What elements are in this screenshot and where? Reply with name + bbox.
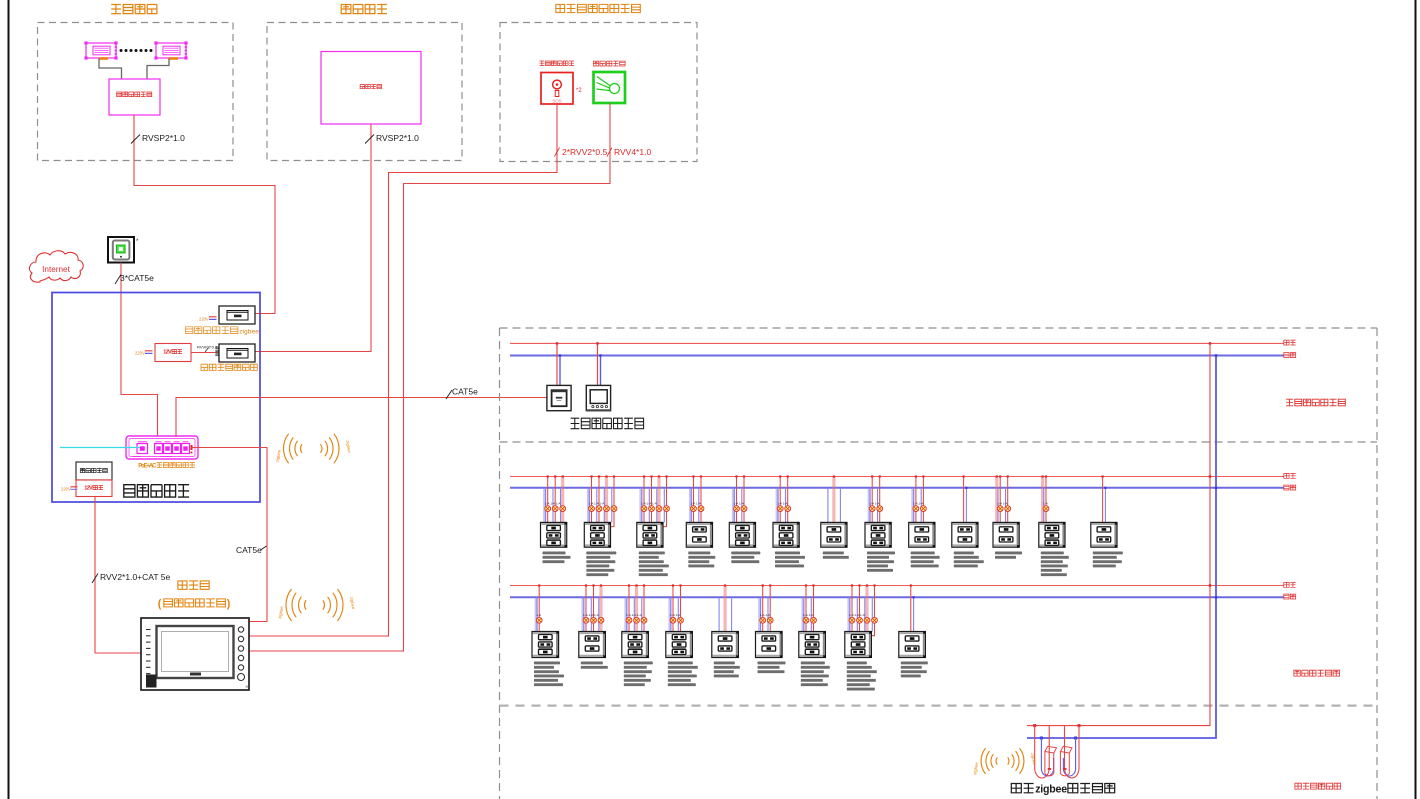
wire: curtain live feeder xyxy=(0,0,1,1)
section label: 窗帘控制系统 (red) xyxy=(1295,783,1341,789)
lighting switch panel row1 #3 with drops and connectors xyxy=(637,475,670,576)
border frame left line xyxy=(8,0,10,799)
svg-text:CAT5e: CAT5e xyxy=(236,545,262,555)
wire: uplink cyan into router port1 xyxy=(60,447,140,449)
curtain motor hook U1 (red) xyxy=(1035,726,1050,778)
power tap 220V for AC gateway xyxy=(199,317,217,322)
leader slash (monitor power) xyxy=(92,574,98,584)
svg-text:1-A 1-A: 1-A 1-A xyxy=(691,501,702,505)
label: 新风协议转发器 xyxy=(201,364,257,370)
lighting switch panel row2 #2 with drops and connectors xyxy=(579,584,608,668)
wire: AC unit2 to outdoor-unit box (grey) xyxy=(147,59,169,80)
label: 户内弱电箱 xyxy=(124,485,189,497)
device: video intercom switch 视频交换机 xyxy=(76,462,112,480)
device: thermostat panel 2 (screen type) xyxy=(586,385,610,410)
ellipsis dots between AC units xyxy=(120,49,153,52)
wire: SOS button to indoor monitor (red) xyxy=(250,104,558,636)
svg-text:(: ( xyxy=(158,598,162,610)
svg-text:1-A 1-A: 1-A 1-A xyxy=(734,501,745,505)
title: fresh-air system 新风系统 xyxy=(341,5,387,14)
leader slash tiny xyxy=(205,348,209,353)
curtain motor cylinder 2 xyxy=(1060,746,1072,776)
wire: AC unit1 to outdoor-unit box (grey) xyxy=(99,59,122,80)
svg-text:1-A 1-A: 1-A 1-A xyxy=(869,501,880,505)
lighting switch panel row1 #1 with drops and connectors xyxy=(541,475,571,563)
svg-text:RVV4*1.0: RVV4*1.0 xyxy=(614,147,651,157)
dashed separator: lighting / curtain sections xyxy=(500,704,1378,706)
panic button box (SOS) xyxy=(541,73,573,105)
device: indoor monitor 室内机 (dual LAN gateway) xyxy=(141,618,249,690)
dashed box: wired security alarm system 有线安防报警系统 xyxy=(500,23,697,162)
wire: live trunk riser to curtain section xyxy=(1027,343,1210,725)
wire: live bus L (lighting row 1) xyxy=(510,476,1284,478)
svg-text:3*CAT5e: 3*CAT5e xyxy=(120,273,154,283)
svg-text:1-A 1-A 1-A: 1-A 1-A 1-A xyxy=(545,501,562,505)
svg-text:1-A 1-A: 1-A 1-A xyxy=(913,501,924,505)
lighting switch panel row2 #9 with drops and connectors xyxy=(899,584,928,677)
svg-text:1-A 1-A 1-A: 1-A 1-A 1-A xyxy=(626,613,643,617)
leader slash (fresh-air cable) xyxy=(365,135,374,144)
svg-text:220V: 220V xyxy=(135,351,145,356)
box: fresh air unit 新风机组 xyxy=(321,52,421,125)
power tap 220V (intercom supply) xyxy=(61,487,78,492)
label: gas detector 燃气探测器 xyxy=(593,61,625,66)
wire: outdoor unit down to AC gateway (red) xyxy=(134,115,275,314)
label: 无线zigbee窗帘电机 xyxy=(1011,784,1033,793)
lighting switch panel row2 #7 with drops and connectors xyxy=(799,584,830,686)
svg-text:1-A 1-A 1-A: 1-A 1-A 1-A xyxy=(849,613,866,617)
device: fresh-air protocol converter 新风协议转发器 xyxy=(216,344,256,362)
curtain motor hook U2 (red) xyxy=(1065,726,1080,778)
label: 火线 (live, thermostat) xyxy=(1284,340,1296,345)
wire drop: live to thermostat panel2 xyxy=(597,343,599,385)
label: 室内机 xyxy=(178,581,209,589)
lighting switch panel row2 #5 with drops and connectors xyxy=(712,584,740,677)
lighting switch panel row1 #4 with drops and connectors xyxy=(686,475,715,567)
lighting switch panel row1 #7 with drops and connectors xyxy=(821,475,849,558)
svg-text:1-A 1-A: 1-A 1-A xyxy=(803,613,814,617)
wifi link symbol (monitor wireless) xyxy=(277,589,356,621)
svg-text:1-A 1-A 1-A: 1-A 1-A 1-A xyxy=(589,501,606,505)
svg-text:Internet: Internet xyxy=(42,265,70,274)
lighting switch panel row2 #8 with drops and connectors xyxy=(845,584,878,690)
AC indoor unit 1 (fan-coil) xyxy=(84,41,117,59)
leader slash (AC cable) xyxy=(131,135,140,144)
junction dots: trunk/bus taps xyxy=(1209,342,1218,598)
svg-text:zigbee: zigbee xyxy=(1035,784,1067,796)
label: 火线 (live, row2) xyxy=(1284,582,1296,587)
lighting switch panel row2 #3 with drops and connectors xyxy=(622,584,653,686)
svg-text:CAT5e: CAT5e xyxy=(452,387,478,397)
wire: ONT to router LAN1 (red) xyxy=(121,263,158,438)
dashed box: HVAC system 空调系统 xyxy=(38,23,234,161)
gas detector box xyxy=(594,72,626,103)
wifi link symbol (router to zigbee) xyxy=(275,434,353,464)
wire drop: live to thermostat panel1 xyxy=(556,343,558,385)
wire: router LAN2 up to CAT5e backbone xyxy=(176,398,547,438)
svg-text:1-A 1-A 1-A: 1-A 1-A 1-A xyxy=(641,501,658,505)
wire: neutral bus N (thermostat section) xyxy=(510,355,1284,357)
border frame right line xyxy=(1415,0,1417,799)
leader slash (3*CAT5e) xyxy=(115,275,121,285)
label: 零线 (neutral, thermostat) xyxy=(1284,353,1296,358)
title: wired security alarm system 有线安防报警系统 xyxy=(556,4,640,12)
device: thermostat panel 1 (button type) xyxy=(547,385,571,410)
ONT/optical modem device icon xyxy=(108,237,139,263)
leader slash (SOS cable) xyxy=(555,148,560,157)
wire: 12V supply down to indoor monitor xyxy=(95,497,141,654)
wifi link symbol (curtain zigbee) xyxy=(972,748,1037,775)
svg-text:1-A 1-A: 1-A 1-A xyxy=(777,501,788,505)
device: PoE+AC integrated router xyxy=(126,436,198,459)
curtain motor hook U2 (blue) xyxy=(1063,738,1075,776)
lighting switch panel row2 #4 with drops and connectors xyxy=(666,584,698,686)
dashed box: fresh-air system 新风系统 xyxy=(267,23,462,161)
lighting switch panel row1 #10 with drops and connectors xyxy=(952,475,984,567)
svg-text:PoE+AC: PoE+AC xyxy=(138,464,157,470)
wire: neutral bus N (lighting row 1) xyxy=(510,487,1284,489)
lighting switch panel row1 #6 with drops and connectors xyxy=(773,475,805,567)
wire: gas detector to indoor monitor (red) xyxy=(250,103,611,651)
curtain motor hook U1 (blue) xyxy=(1041,738,1053,776)
wire: 12V supply to protocol converter xyxy=(191,352,219,354)
svg-text:): ) xyxy=(227,598,231,610)
label: 中央空调外机 xyxy=(117,92,152,97)
lighting switch panel row1 #12 with drops and connectors xyxy=(1039,475,1069,576)
box: central AC outdoor unit 中央空调外机 xyxy=(109,79,160,115)
svg-text:1-A 1-A: 1-A 1-A xyxy=(760,613,771,617)
lighting switch panel row2 #6 with drops and connectors xyxy=(756,584,786,673)
svg-text:1-A 1-A: 1-A 1-A xyxy=(670,613,681,617)
lighting switch panel row1 #8 with drops and connectors xyxy=(865,475,895,571)
AC indoor unit 2 (fan-coil) xyxy=(154,41,187,59)
label: 火线 (live, row1) xyxy=(1284,473,1296,478)
device: AC gateway (built-in zigbee) 空调网关 xyxy=(219,306,255,324)
wire: live bus L (lighting row 2) xyxy=(510,585,1284,587)
title: HVAC system 空调系统 xyxy=(111,5,157,14)
section label: 灯光控制系统 (red) xyxy=(1294,670,1340,676)
label: 空调网关内置zigbee xyxy=(186,327,238,334)
leader slash (gas cable) xyxy=(607,148,612,157)
box: indoor weak-current cabinet 户内弱电箱 (blue) xyxy=(52,293,260,503)
svg-text:zigbee: zigbee xyxy=(239,329,259,336)
svg-text:2*RVV2*0.5: 2*RVV2*0.5 xyxy=(562,147,607,157)
wire drop: neutral to thermostat panel2 xyxy=(600,356,602,386)
label: 新风机组 xyxy=(360,85,381,89)
lighting switch panel row1 #11 with drops and connectors xyxy=(993,475,1022,558)
junction dots: thermostat drops xyxy=(556,342,602,356)
svg-text:220V: 220V xyxy=(61,487,71,492)
label: emergency alarm button 紧急报警按钮 xyxy=(540,61,575,66)
lighting switch panel row2 #1 with drops and connectors xyxy=(532,584,564,686)
label: 三合一温控面板 (black) xyxy=(571,418,644,429)
leader line (monitor drop) xyxy=(261,546,267,550)
svg-text:220V: 220V xyxy=(199,317,209,322)
internet cloud symbol xyxy=(29,251,83,282)
wire: neutral bus N (lighting row 2) xyxy=(510,596,1284,598)
svg-text:RVV2*1.0+CAT 5e: RVV2*1.0+CAT 5e xyxy=(100,572,170,582)
power supply box: 12V电源 (intercom) xyxy=(76,480,112,497)
svg-text:12V: 12V xyxy=(84,486,93,492)
dashed separator: thermostat / lighting sections xyxy=(500,441,1378,443)
curtain motor cylinder 1 xyxy=(1045,746,1057,776)
label: 零线 (neutral, row1) xyxy=(1284,485,1296,490)
svg-text:1-A 1-A 1-A: 1-A 1-A 1-A xyxy=(583,613,600,617)
wire: router right to indoor monitor xyxy=(192,448,268,622)
label: 零线 (neutral, row2) xyxy=(1284,594,1296,599)
lighting switch panel row1 #2 with drops and connectors xyxy=(584,475,617,576)
svg-text:12V: 12V xyxy=(163,350,172,356)
wire: neutral trunk riser to curtain section xyxy=(1027,356,1216,739)
svg-text:RVSP2*1.0: RVSP2*1.0 xyxy=(376,133,419,143)
power supply box: 12V电源 (gateway) xyxy=(155,344,191,362)
svg-text:*2: *2 xyxy=(576,88,582,94)
wire: fresh-air unit down to protocol converter (red) xyxy=(256,124,372,352)
power tap 220V for 12V supply xyxy=(135,351,153,356)
leader slash (backbone) xyxy=(446,390,452,399)
wire: live bus L (thermostat section) xyxy=(510,342,1284,344)
dashed box right: outer frame of control sections xyxy=(500,328,1378,799)
wire drop: neutral to thermostat panel1 xyxy=(559,356,561,386)
lighting switch panel row1 #9 with drops and connectors xyxy=(909,475,940,567)
section label: 三合一温控面板 (red) xyxy=(1286,399,1345,406)
lighting switch panel row1 #5 with drops and connectors xyxy=(729,475,760,563)
svg-text:SOS: SOS xyxy=(552,98,561,103)
lighting switch panel row1 #13 with drops and connectors xyxy=(1091,475,1123,567)
svg-text:RVSP2*1.0: RVSP2*1.0 xyxy=(142,133,185,143)
junction dots: curtain taps xyxy=(1033,724,1080,739)
svg-text:1-A 1-A: 1-A 1-A xyxy=(997,501,1008,505)
